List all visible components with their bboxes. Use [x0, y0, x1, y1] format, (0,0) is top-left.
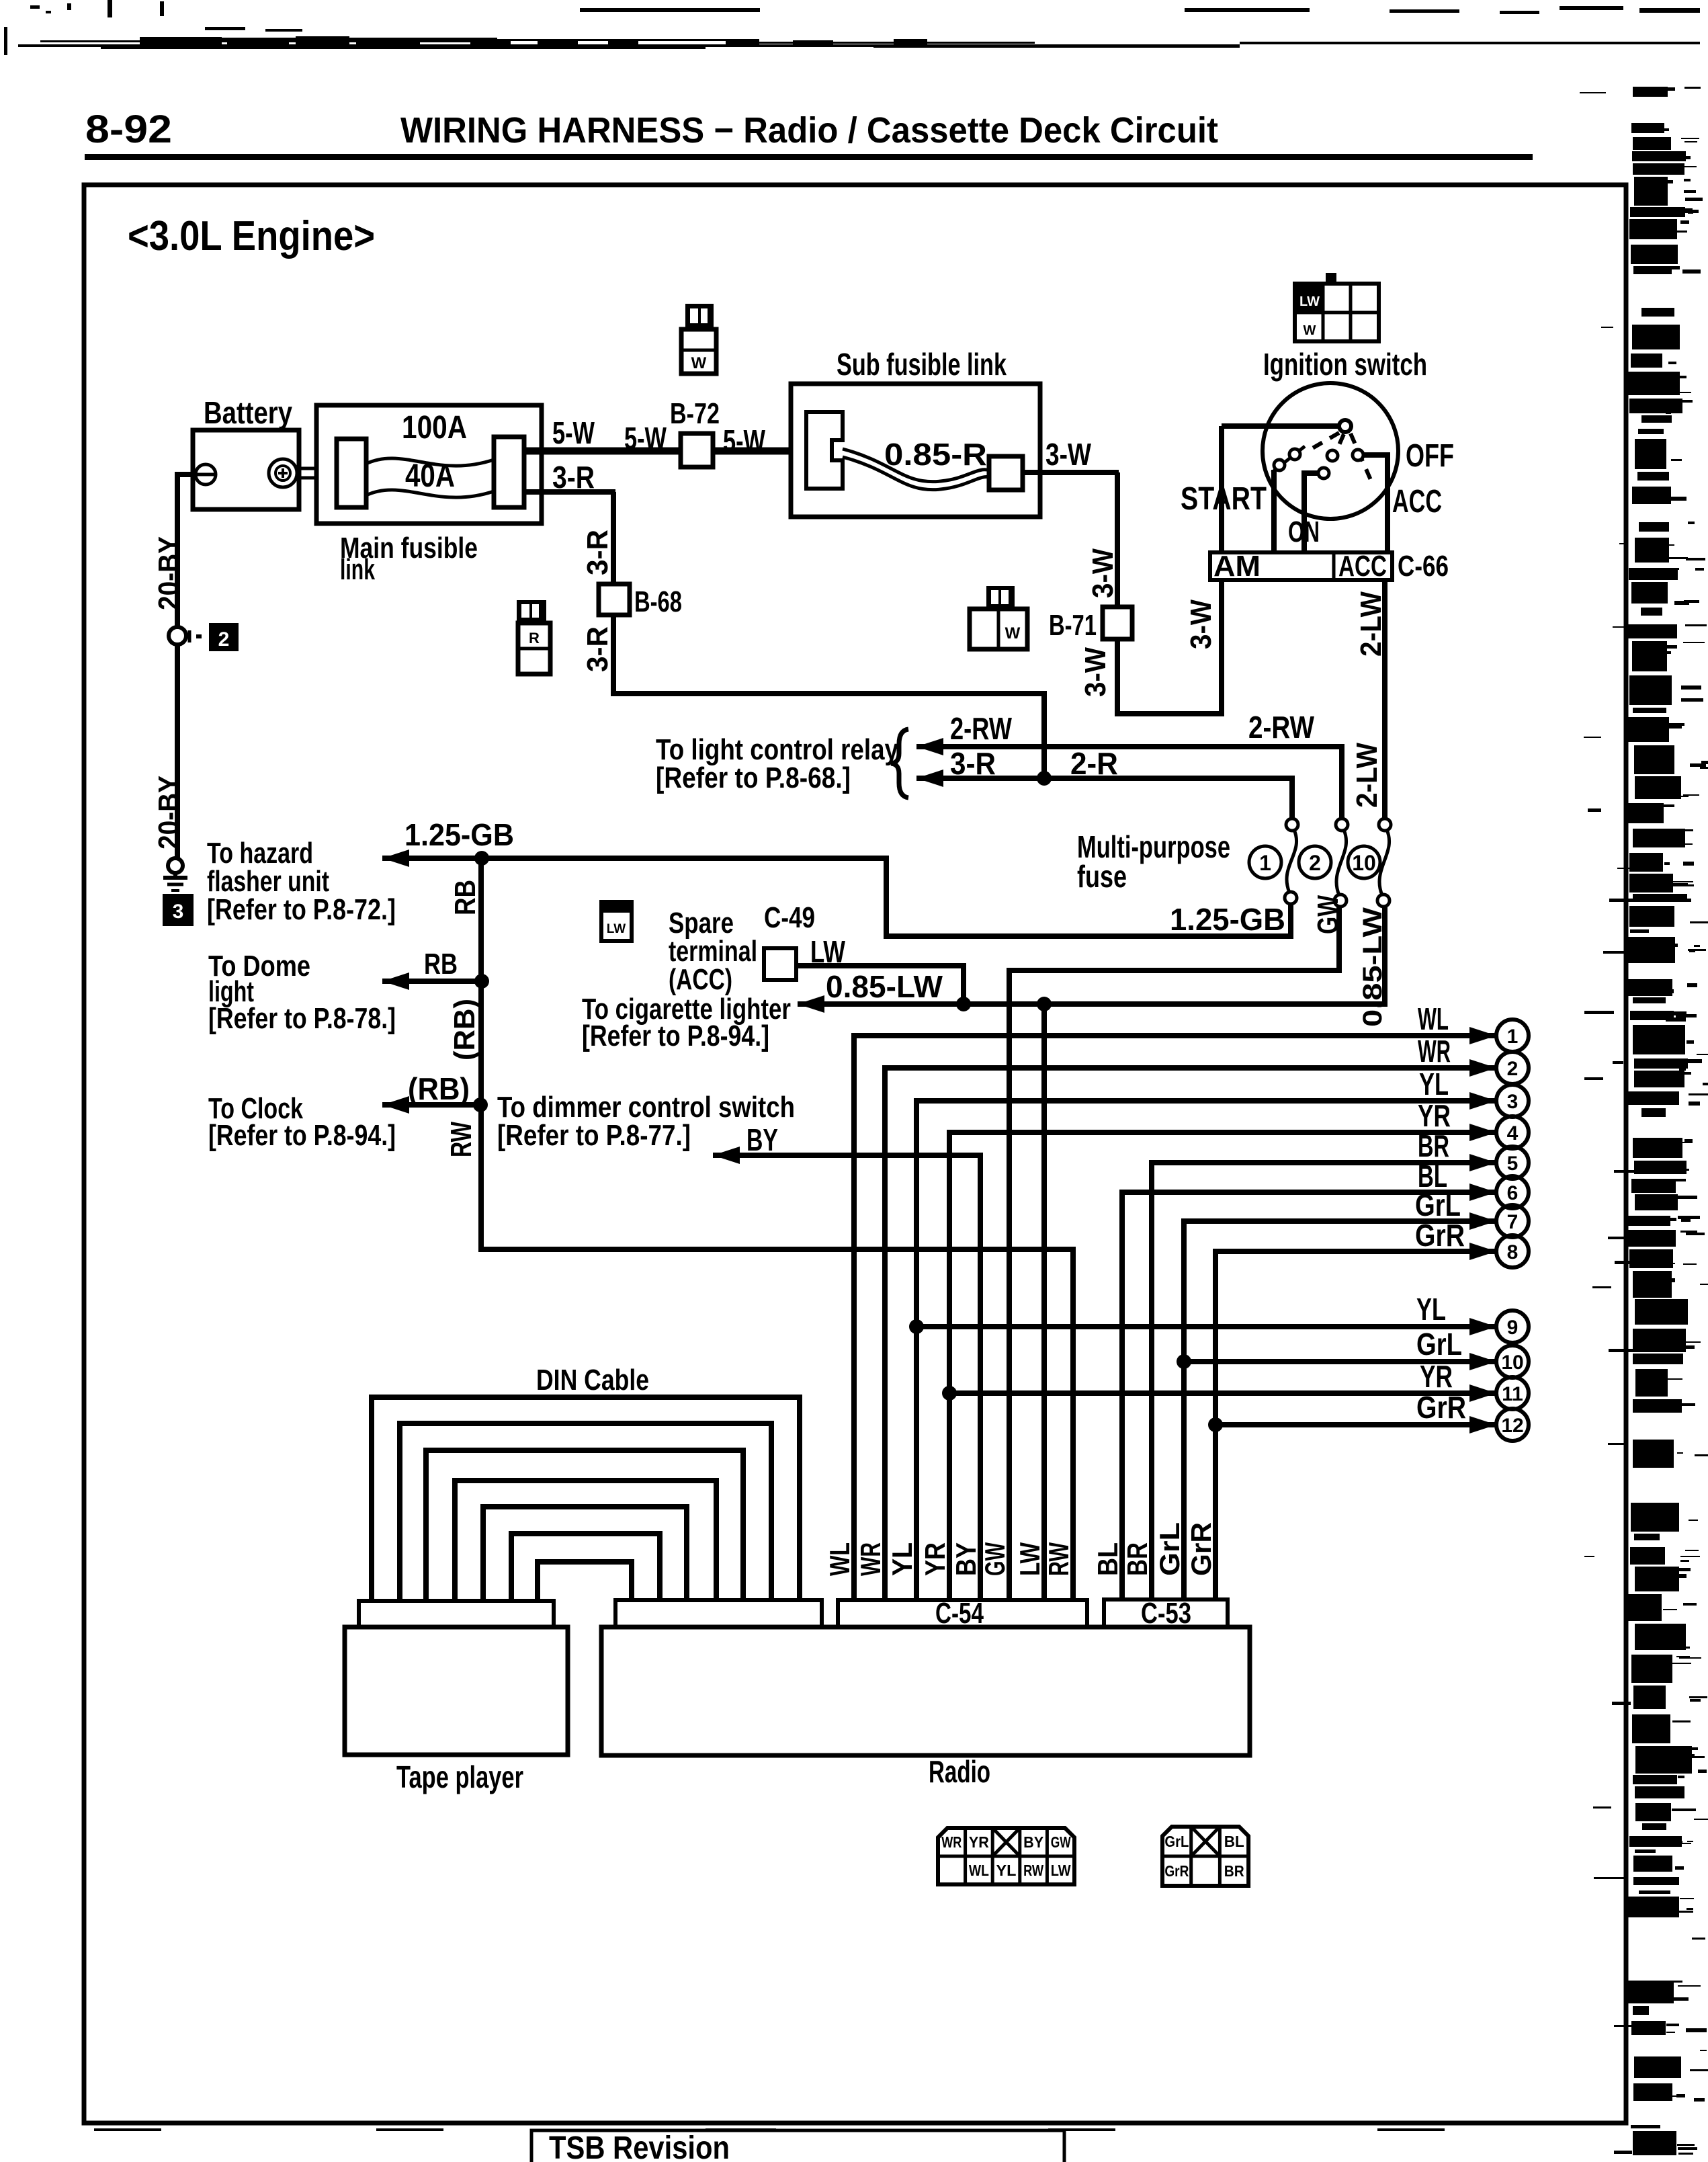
svg-text:GW: GW [1312, 895, 1344, 934]
svg-text:9: 9 [1507, 1317, 1519, 1339]
svg-text:W: W [1304, 323, 1316, 338]
svg-text:LW: LW [1299, 294, 1320, 309]
svg-text:WL: WL [824, 1542, 855, 1576]
svg-text:[Refer to P.8-78.]: [Refer to P.8-78.] [208, 1002, 396, 1035]
svg-text:[Refer to P.8-94.]: [Refer to P.8-94.] [208, 1119, 396, 1152]
svg-text:BY: BY [950, 1542, 982, 1576]
svg-text:LW: LW [607, 922, 626, 936]
svg-text:3-R: 3-R [950, 746, 996, 781]
svg-text:10: 10 [1352, 851, 1376, 875]
svg-text:3-R: 3-R [581, 530, 614, 575]
svg-text:Ignition switch: Ignition switch [1263, 347, 1427, 382]
svg-text:(ACC): (ACC) [669, 963, 732, 996]
svg-text:ACC: ACC [1392, 484, 1442, 519]
svg-text:(RB): (RB) [448, 999, 481, 1061]
svg-text:WR: WR [855, 1542, 886, 1576]
svg-text:0.85-R: 0.85-R [884, 437, 987, 472]
svg-text:20-BY: 20-BY [153, 776, 185, 849]
svg-text:RW: RW [1043, 1542, 1074, 1576]
svg-text:C-66: C-66 [1398, 550, 1449, 583]
svg-text:4: 4 [1507, 1122, 1519, 1145]
svg-text:C-49: C-49 [764, 901, 815, 934]
svg-text:YR: YR [969, 1833, 989, 1851]
svg-text:[Refer to P.8-94.]: [Refer to P.8-94.] [582, 1020, 769, 1052]
svg-text:LW: LW [1014, 1542, 1045, 1576]
svg-text:BL: BL [1224, 1833, 1244, 1850]
svg-text:BY: BY [1023, 1833, 1043, 1851]
svg-text:BR: BR [1224, 1862, 1244, 1880]
svg-text:B-71: B-71 [1049, 609, 1097, 642]
svg-text:11: 11 [1502, 1383, 1523, 1405]
svg-text:3-W: 3-W [1086, 548, 1119, 598]
svg-text:5-W: 5-W [552, 415, 595, 450]
svg-text:[Refer to P.8-68.]: [Refer to P.8-68.] [656, 761, 851, 794]
svg-text:40A: 40A [405, 458, 455, 494]
svg-text:RB: RB [449, 880, 482, 915]
svg-text:GrR: GrR [1185, 1522, 1217, 1576]
svg-text:3-W: 3-W [1045, 437, 1091, 472]
svg-text:YL: YL [886, 1542, 918, 1576]
svg-text:WR: WR [941, 1833, 962, 1851]
svg-text:B-72: B-72 [670, 397, 720, 430]
svg-text:2-R: 2-R [1070, 746, 1118, 781]
svg-text:START: START [1181, 481, 1267, 517]
svg-text:[Refer to P.8-72.]: [Refer to P.8-72.] [207, 893, 396, 926]
svg-text:RB: RB [424, 948, 458, 981]
svg-text:Sub fusible link: Sub fusible link [837, 347, 1007, 382]
svg-text:2-RW: 2-RW [950, 711, 1012, 746]
svg-text:8: 8 [1507, 1241, 1519, 1263]
svg-text:<3.0L Engine>: <3.0L Engine> [128, 213, 375, 259]
svg-text:W: W [1005, 624, 1021, 642]
svg-text:GW: GW [1051, 1833, 1071, 1851]
svg-text:Radio: Radio [929, 1754, 990, 1789]
svg-text:2-LW: 2-LW [1355, 591, 1387, 657]
svg-text:WIRING HARNESS − Radio / Casse: WIRING HARNESS − Radio / Cassette Deck C… [400, 110, 1218, 151]
svg-text:WR: WR [1418, 1034, 1451, 1069]
svg-text:(RB): (RB) [408, 1071, 470, 1106]
svg-text:5: 5 [1507, 1153, 1519, 1175]
svg-text:3-R: 3-R [552, 460, 595, 495]
svg-text:YR: YR [1420, 1359, 1453, 1394]
svg-text:WL: WL [969, 1862, 989, 1879]
svg-text:GrL: GrL [1164, 1833, 1189, 1850]
svg-text:Battery: Battery [204, 395, 292, 430]
svg-text:1: 1 [1507, 1026, 1519, 1048]
svg-text:ACC: ACC [1338, 550, 1387, 583]
svg-text:link: link [340, 553, 375, 586]
svg-text:[Refer to P.8-77.]: [Refer to P.8-77.] [497, 1119, 691, 1152]
svg-text:2: 2 [1309, 851, 1321, 875]
svg-text:GrL: GrL [1154, 1522, 1185, 1576]
svg-text:3: 3 [173, 901, 184, 923]
svg-text:2: 2 [1507, 1058, 1519, 1080]
svg-text:ON: ON [1288, 515, 1320, 548]
svg-text:5-W: 5-W [723, 423, 765, 458]
svg-text:BL: BL [1092, 1542, 1123, 1576]
svg-text:TSB Revision: TSB Revision [549, 2130, 730, 2162]
svg-text:W: W [691, 354, 707, 372]
svg-text:WL: WL [1418, 1001, 1449, 1036]
svg-text:DIN Cable: DIN Cable [536, 1364, 649, 1397]
svg-text:5-W: 5-W [624, 421, 667, 456]
svg-text:BY: BY [746, 1122, 778, 1157]
svg-text:GrR: GrR [1416, 1390, 1466, 1425]
svg-text:LW: LW [1051, 1862, 1071, 1879]
svg-text:3-W: 3-W [1185, 599, 1218, 649]
svg-text:RW: RW [1023, 1862, 1043, 1879]
svg-text:7: 7 [1507, 1211, 1519, 1233]
svg-text:2-RW: 2-RW [1248, 710, 1314, 745]
svg-text:2: 2 [218, 628, 230, 651]
svg-text:3-W: 3-W [1079, 647, 1112, 697]
svg-text:100A: 100A [402, 410, 467, 446]
svg-text:Tape player: Tape player [396, 1759, 523, 1794]
svg-text:YL: YL [1419, 1067, 1449, 1101]
svg-text:GrL: GrL [1416, 1327, 1462, 1362]
svg-text:GrR: GrR [1164, 1862, 1189, 1880]
svg-text:6: 6 [1507, 1182, 1519, 1204]
svg-text:8-92: 8-92 [85, 108, 172, 151]
svg-text:GW: GW [979, 1542, 1011, 1576]
svg-text:20-BY: 20-BY [153, 536, 185, 610]
svg-text:2-LW: 2-LW [1351, 743, 1383, 808]
svg-text:YR: YR [919, 1542, 951, 1576]
svg-text:GrR: GrR [1415, 1218, 1465, 1253]
svg-text:YL: YL [996, 1862, 1017, 1879]
svg-text:RW: RW [445, 1122, 478, 1157]
svg-text:R: R [529, 630, 540, 647]
svg-text:3-R: 3-R [581, 626, 614, 672]
svg-text:3: 3 [1507, 1091, 1519, 1113]
svg-text:B-68: B-68 [634, 585, 682, 618]
svg-text:0.85-LW: 0.85-LW [826, 969, 943, 1004]
svg-text:1.25-GB: 1.25-GB [1170, 902, 1285, 937]
svg-text:fuse: fuse [1077, 859, 1127, 894]
svg-text:BR: BR [1121, 1542, 1153, 1576]
svg-text:0.85-LW: 0.85-LW [1358, 907, 1387, 1027]
svg-text:1: 1 [1259, 851, 1271, 875]
svg-text:12: 12 [1501, 1415, 1523, 1437]
svg-text:AM: AM [1213, 550, 1261, 583]
svg-text:YL: YL [1416, 1292, 1446, 1327]
svg-text:10: 10 [1501, 1352, 1523, 1374]
svg-text:1.25-GB: 1.25-GB [404, 817, 514, 852]
svg-text:OFF: OFF [1406, 438, 1454, 474]
